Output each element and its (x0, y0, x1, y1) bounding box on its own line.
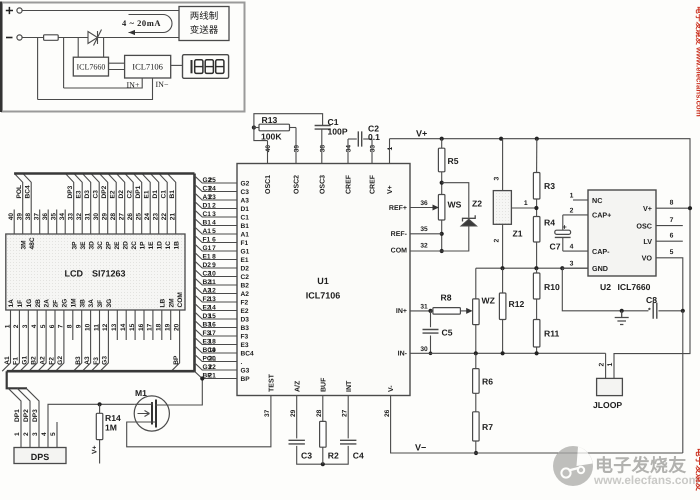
svg-text:C1: C1 (241, 214, 250, 221)
svg-text:1: 1 (4, 324, 11, 328)
svg-text:3B: 3B (79, 299, 86, 308)
junction V+/Z1 (499, 137, 503, 141)
svg-text:35: 35 (51, 213, 58, 221)
connector JLOOP (597, 378, 623, 395)
svg-text:G3: G3 (241, 367, 250, 374)
wire U2 pin5 VO down (656, 258, 683, 311)
svg-text:30: 30 (420, 346, 428, 353)
wire R6-R7 (475, 393, 477, 412)
svg-text:D3: D3 (84, 190, 91, 199)
svg-text:14: 14 (120, 323, 127, 331)
svg-text:39: 39 (17, 213, 24, 221)
potentiometer WS body (438, 195, 445, 221)
svg-text:WZ: WZ (482, 296, 495, 306)
svg-text:CREF: CREF (346, 174, 353, 194)
node OSC1/R13/C1 (252, 125, 256, 129)
svg-text:33: 33 (370, 145, 377, 153)
svg-text:D1: D1 (241, 206, 250, 213)
svg-text:D1: D1 (152, 190, 159, 199)
svg-text:Z2: Z2 (472, 199, 482, 209)
svg-text:C2: C2 (241, 274, 250, 281)
watermark logo (elecfans) (553, 446, 593, 486)
wire diode to transmitter (98, 37, 180, 39)
svg-text:F1: F1 (203, 236, 211, 243)
LCD module SI71263 (6, 234, 185, 310)
wire REF- pin35 (410, 233, 442, 235)
wire R2 bottom lead (322, 447, 324, 464)
wire M1 source to TEST (127, 396, 271, 447)
wire R3 top lead (536, 139, 538, 173)
svg-text:15: 15 (129, 323, 136, 331)
svg-text:40: 40 (265, 145, 272, 153)
svg-text:E1: E1 (241, 257, 249, 264)
svg-text:电子发烧友 www.elecfans.com: 电子发烧友 www.elecfans.com (695, 6, 700, 117)
svg-text:BP: BP (173, 355, 180, 365)
wire WZ bottom (475, 325, 477, 354)
wire U2 pin6 LV (656, 240, 683, 242)
svg-text:U2: U2 (600, 282, 611, 292)
svg-text:10: 10 (208, 270, 216, 277)
svg-text:40: 40 (8, 213, 15, 221)
wire U2 pin1 NC (573, 199, 588, 201)
LCD bottom pin 18 (nc) (161, 310, 163, 340)
svg-text:A1: A1 (203, 228, 212, 235)
svg-text:ICL7106: ICL7106 (132, 62, 163, 72)
minus terminal (17, 35, 22, 40)
wire to ICL7660 supply (77, 38, 79, 58)
svg-text:C1: C1 (203, 211, 212, 218)
svg-text:U1: U1 (317, 276, 329, 286)
svg-text:33: 33 (68, 213, 75, 221)
svg-text:3: 3 (212, 211, 216, 218)
svg-text:G3: G3 (102, 356, 109, 365)
wire C3-C4 bottom link (297, 446, 349, 464)
LCD top pin 33 net DP3 (65, 174, 73, 235)
svg-text:3D: 3D (88, 241, 95, 250)
LCD bottom pin 17 (nc) (152, 310, 154, 340)
svg-text:14: 14 (208, 304, 216, 311)
LCD bottom pin 8 (nc) (72, 310, 74, 340)
svg-text:5: 5 (212, 228, 216, 235)
wire DP1 from bus to DPS (8, 388, 21, 447)
svg-text:7: 7 (58, 324, 65, 328)
junction R12/IN- (501, 351, 505, 355)
wire U2 pin7 OSC (656, 225, 683, 227)
svg-text:2E: 2E (114, 241, 121, 250)
svg-text:*: * (648, 308, 651, 315)
svg-text:3F: 3F (97, 300, 104, 308)
LCD bottom pin 2 net F1 (11, 310, 19, 371)
svg-text:28: 28 (316, 409, 323, 417)
svg-text:B3: B3 (241, 325, 250, 332)
wire DP3 from bus to DPS (26, 388, 39, 447)
LCD bottom pin 15 (nc) (134, 310, 136, 340)
svg-text:DP3: DP3 (67, 185, 74, 198)
svg-text:电子发烧友: 电子发烧友 (695, 448, 700, 491)
wire U2 pin4 CAP- (563, 250, 588, 252)
svg-text:F1: F1 (13, 357, 20, 365)
svg-text:C3: C3 (301, 451, 312, 461)
bus bar vertical (193, 174, 196, 373)
capacitor C2 (358, 131, 361, 146)
LCD top pin 27 net D2 (116, 174, 124, 235)
LCD bottom pin 14 (nc) (125, 310, 127, 340)
svg-text:4: 4 (570, 244, 574, 251)
LCD top pin 29 net DP2 (99, 174, 107, 235)
LCD bottom segment bus (7, 370, 195, 373)
svg-text:D2: D2 (118, 190, 125, 199)
bus fanout row D2 pin 9 (195, 261, 238, 268)
wire COM pin32 (410, 250, 442, 252)
capacitor C1 (315, 126, 331, 130)
svg-text:A3: A3 (241, 197, 250, 204)
svg-text:G1: G1 (203, 245, 212, 252)
svg-text:26: 26 (384, 409, 391, 417)
wire IN- pin30 line (410, 352, 606, 354)
wire R12 top lead (502, 268, 504, 293)
LCD top pin 23 net D1 (150, 174, 158, 235)
wire R3-R4 (536, 199, 538, 217)
LCD top pin 37 (nc) (39, 210, 41, 235)
wire REF+ to WS wiper (410, 207, 436, 209)
svg-text:V+: V+ (643, 204, 652, 213)
svg-text:F2: F2 (48, 357, 55, 365)
svg-text:OSC2: OSC2 (294, 175, 301, 194)
svg-text:R13: R13 (262, 115, 278, 125)
LCD top pin 31 net D3 (82, 174, 90, 235)
plus terminal (17, 8, 22, 13)
svg-text:C2: C2 (127, 190, 134, 199)
resistor R13 (259, 124, 290, 131)
resistor R3 (533, 173, 540, 200)
wire R4 bottom lead (536, 242, 538, 268)
junction V+ rail/pin8 (688, 206, 692, 210)
bus fanout row G3 pin 22 (195, 363, 238, 370)
bus fanout row A1 pin 5 (195, 227, 238, 234)
wire R7 bottom lead (475, 441, 477, 453)
wire C7 top lead (562, 215, 564, 230)
op-amp/ADC U1 ICL7106 box (237, 164, 410, 396)
svg-text:36: 36 (42, 213, 49, 221)
LCD top pin 25 net DP1 (133, 174, 141, 235)
svg-text:REF-: REF- (391, 231, 408, 238)
svg-text:SI71263: SI71263 (92, 269, 126, 279)
wire resistor to diode (58, 37, 87, 39)
wire C5 top lead (430, 311, 432, 327)
svg-text:13: 13 (111, 323, 118, 331)
svg-text:16: 16 (138, 323, 145, 331)
svg-text:B2: B2 (31, 356, 38, 365)
svg-text:OSC3: OSC3 (319, 175, 326, 194)
junction WZ/R6/IN- (474, 351, 478, 355)
ground symbol (615, 311, 629, 325)
svg-text:39: 39 (294, 145, 301, 153)
svg-text:26: 26 (127, 213, 134, 221)
svg-text:C4: C4 (353, 451, 364, 461)
bus fanout row A2 pin 12 (195, 286, 238, 293)
bus fanout row F3 pin 17 (195, 329, 238, 336)
wire M1 drain to BP (156, 379, 203, 406)
wire CREF33 stub (371, 139, 373, 164)
ICL7106 box (inset) (125, 55, 171, 78)
junction Z1pin2/R12 (500, 266, 504, 270)
svg-text:13: 13 (208, 296, 216, 303)
wire R13 right lead (290, 127, 297, 129)
svg-text:COM: COM (391, 247, 408, 254)
svg-text:E3: E3 (241, 342, 249, 349)
svg-text:R2: R2 (328, 451, 339, 461)
wire analog common line (476, 267, 588, 269)
svg-text:B1: B1 (169, 190, 176, 199)
svg-text:2: 2 (23, 432, 30, 436)
IC U2 ICL7660 box (588, 190, 656, 276)
LCD bottom pin 9 net B3 (73, 310, 81, 371)
junction VO/C8 (681, 309, 685, 313)
svg-text:17: 17 (208, 330, 216, 337)
junction C5/IN- (429, 352, 433, 356)
svg-text:A2: A2 (39, 356, 46, 365)
junction drain/BP (200, 376, 204, 380)
svg-text:DP2: DP2 (23, 409, 30, 422)
wire R10 top lead (536, 268, 538, 273)
LCD top pin 36 (nc) (47, 210, 49, 235)
bus fanout row B3 pin 16 (195, 320, 238, 327)
svg-text:G1: G1 (22, 356, 29, 365)
svg-text:22: 22 (161, 213, 168, 221)
svg-text:GND: GND (592, 264, 608, 273)
svg-text:2G: 2G (62, 299, 69, 308)
svg-text:1: 1 (14, 432, 21, 436)
svg-text:3: 3 (570, 261, 574, 268)
svg-text:C1: C1 (161, 190, 168, 199)
resistor R8 (433, 308, 461, 315)
svg-text:R14: R14 (105, 413, 121, 423)
ICL7660 box (inset) (73, 57, 108, 76)
wire R10-R11 (536, 299, 538, 320)
svg-text:32: 32 (76, 213, 83, 221)
wire R13 top rail to C1 (254, 114, 323, 128)
bus fanout row D3 pin 15 (195, 312, 238, 319)
bus fanout row BP pin 21 (195, 371, 238, 378)
svg-text:2B: 2B (35, 299, 42, 308)
svg-text:INT: INT (346, 380, 353, 392)
svg-text:1: 1 (387, 147, 394, 151)
wire IN+ pin31 (410, 310, 431, 312)
svg-text:1: 1 (524, 200, 528, 207)
junction gnd branch (560, 266, 564, 270)
svg-text:D3: D3 (241, 316, 250, 323)
junction R2 bottom (321, 462, 325, 466)
svg-text:10: 10 (84, 323, 91, 331)
svg-text:R3: R3 (544, 181, 555, 191)
junction COM/Z2 (440, 249, 444, 253)
wire V+ pin1 stub (389, 139, 391, 164)
capacitor C8 (653, 303, 657, 319)
7-seg digits 1888 (191, 60, 193, 73)
svg-text:F1: F1 (241, 240, 249, 247)
svg-text:5: 5 (50, 432, 57, 436)
svg-text:7: 7 (212, 245, 216, 252)
svg-text:37: 37 (34, 213, 41, 221)
svg-text:20: 20 (208, 355, 216, 362)
svg-text:D2: D2 (241, 265, 250, 272)
resistor R7 (473, 412, 480, 441)
zener Z2 (461, 219, 477, 226)
minus terminal label (6, 37, 13, 39)
bus fanout row B2 pin 11 (195, 278, 238, 285)
svg-text:38: 38 (25, 213, 32, 221)
wire V- rail (391, 396, 683, 454)
svg-text:48C: 48C (29, 237, 36, 249)
svg-text:32: 32 (420, 243, 428, 250)
resistor R2 (320, 421, 327, 447)
svg-text:1B: 1B (173, 241, 180, 250)
wire U2 pin2 CAP+ (563, 214, 588, 216)
svg-text:OSC: OSC (636, 221, 652, 230)
LCD bottom pin 3 net G1 (20, 310, 28, 371)
svg-text:3C: 3C (97, 241, 104, 250)
svg-text:V+: V+ (387, 185, 394, 194)
wire JLOOP pin2 lead (605, 353, 607, 378)
svg-text:G1: G1 (241, 248, 250, 255)
svg-text:C1: C1 (328, 117, 339, 127)
svg-text:21: 21 (208, 372, 216, 379)
svg-text:22: 22 (208, 364, 216, 371)
wire gate entry (134, 402, 152, 404)
svg-text:3E: 3E (80, 241, 87, 250)
wire R8 to WZ arrow (460, 310, 466, 312)
wire 7106 to display (171, 64, 183, 66)
svg-text:12: 12 (208, 287, 216, 294)
svg-text:100K: 100K (261, 132, 282, 142)
LCD bottom pin 16 (nc) (143, 310, 145, 340)
svg-text:G2: G2 (241, 180, 250, 187)
svg-text:37: 37 (264, 409, 271, 417)
7-seg display box (183, 55, 229, 79)
svg-text:2F: 2F (53, 300, 60, 308)
wire U2 pin3 GND (562, 267, 588, 269)
wire Z1 pin2 down (502, 224, 504, 268)
bus fanout row C1 pin 3 (195, 210, 238, 217)
wire + terminal to transmitter (22, 10, 179, 12)
svg-text:+: + (562, 222, 567, 231)
svg-text:R10: R10 (544, 282, 560, 292)
bus fanout row E1 pin 8 (195, 252, 238, 259)
bus fanout row B1 pin 4 (195, 218, 238, 225)
node R5/WS/Z2 (440, 181, 444, 185)
junction R11/IN- (535, 351, 539, 355)
svg-text:2: 2 (570, 207, 574, 214)
wire OSC3 stub (321, 129, 323, 163)
svg-text:1P: 1P (139, 241, 146, 250)
svg-text:D2: D2 (203, 262, 212, 269)
svg-text:2: 2 (599, 363, 606, 367)
svg-text:R8: R8 (441, 293, 452, 303)
resistor R6 (473, 369, 480, 394)
svg-text:11: 11 (209, 279, 216, 286)
svg-text:M1: M1 (135, 388, 147, 398)
svg-text:A3: A3 (84, 356, 91, 365)
wire diode right to ICL7660 (103, 38, 105, 58)
wire R5 to WS (441, 172, 443, 195)
LCD top pin 28 net E2 (108, 174, 116, 235)
junction IN+/C5/R8 (428, 309, 432, 313)
wire branch to IN+ loop (63, 38, 65, 89)
svg-text:1: 1 (607, 363, 614, 367)
wire Z2 top (442, 183, 469, 218)
svg-text:LB: LB (159, 298, 166, 307)
bus fanout row F2 pin 13 (195, 295, 238, 302)
svg-text:JLOOP: JLOOP (593, 400, 622, 410)
svg-text:COM: COM (177, 292, 184, 308)
svg-text:8: 8 (212, 253, 216, 260)
svg-text:E2: E2 (241, 308, 249, 315)
LCD top pin 35 (nc) (56, 210, 58, 235)
svg-text:DP2: DP2 (101, 185, 108, 198)
svg-text:11: 11 (93, 324, 100, 331)
svg-text:CAP+: CAP+ (592, 211, 611, 220)
svg-text:1M: 1M (70, 298, 77, 308)
svg-text:2M: 2M (168, 298, 175, 308)
LCD bottom pin 13 (nc) (116, 310, 118, 340)
svg-text:25: 25 (136, 213, 143, 221)
wire DPS pin5 stub (56, 422, 58, 448)
svg-text:31: 31 (420, 303, 428, 310)
svg-text:BUF: BUF (320, 377, 327, 392)
svg-text:3: 3 (22, 324, 29, 328)
resistor (loop series) (44, 35, 59, 41)
svg-text:27: 27 (119, 213, 126, 221)
svg-text:16: 16 (208, 321, 216, 328)
wire IN+ loop (64, 78, 143, 88)
resistor R10 (533, 273, 540, 299)
svg-text:35: 35 (420, 226, 428, 233)
svg-text:4: 4 (212, 219, 216, 226)
wire gnd branch to C8 (562, 268, 648, 311)
svg-text:E1: E1 (144, 190, 151, 198)
LCD bottom pin 20 net BP (171, 310, 179, 371)
bus left wrap (7, 371, 27, 388)
svg-text:21: 21 (170, 213, 177, 221)
LCD bottom pin 7 net G2 (56, 310, 64, 371)
LCD bottom pin 6 net F2 (47, 310, 55, 371)
wire R13 left lead (254, 127, 259, 129)
svg-text:2C: 2C (131, 241, 138, 250)
junction R7/V- (474, 451, 478, 455)
capacitor C5 (423, 330, 439, 334)
LCD top segment bus (14, 172, 194, 175)
capacitor C7 (polarized) (555, 230, 571, 234)
svg-text:E3: E3 (76, 190, 83, 198)
wire 7660-7106 upper (109, 62, 125, 64)
svg-text:3: 3 (494, 177, 501, 181)
svg-text:A/Z: A/Z (293, 380, 301, 392)
wire CREF34 stub (347, 139, 349, 164)
LCD bottom pin 1 net A1 (2, 310, 10, 371)
wire C5 bottom lead (430, 336, 432, 354)
svg-text:100P: 100P (328, 127, 348, 137)
junction ground symbol (620, 309, 624, 313)
svg-text:3: 3 (32, 432, 39, 436)
wire 7660-7106 lower (109, 69, 125, 71)
wire A/Z to C3 (296, 396, 298, 439)
svg-text:15: 15 (208, 313, 216, 320)
LCD top pin 40 (nc) (13, 210, 15, 235)
svg-text:0.1: 0.1 (368, 132, 380, 142)
svg-text:28: 28 (110, 213, 117, 221)
bus fanout row C2 pin 10 (195, 269, 238, 276)
svg-text:LV: LV (643, 237, 652, 246)
